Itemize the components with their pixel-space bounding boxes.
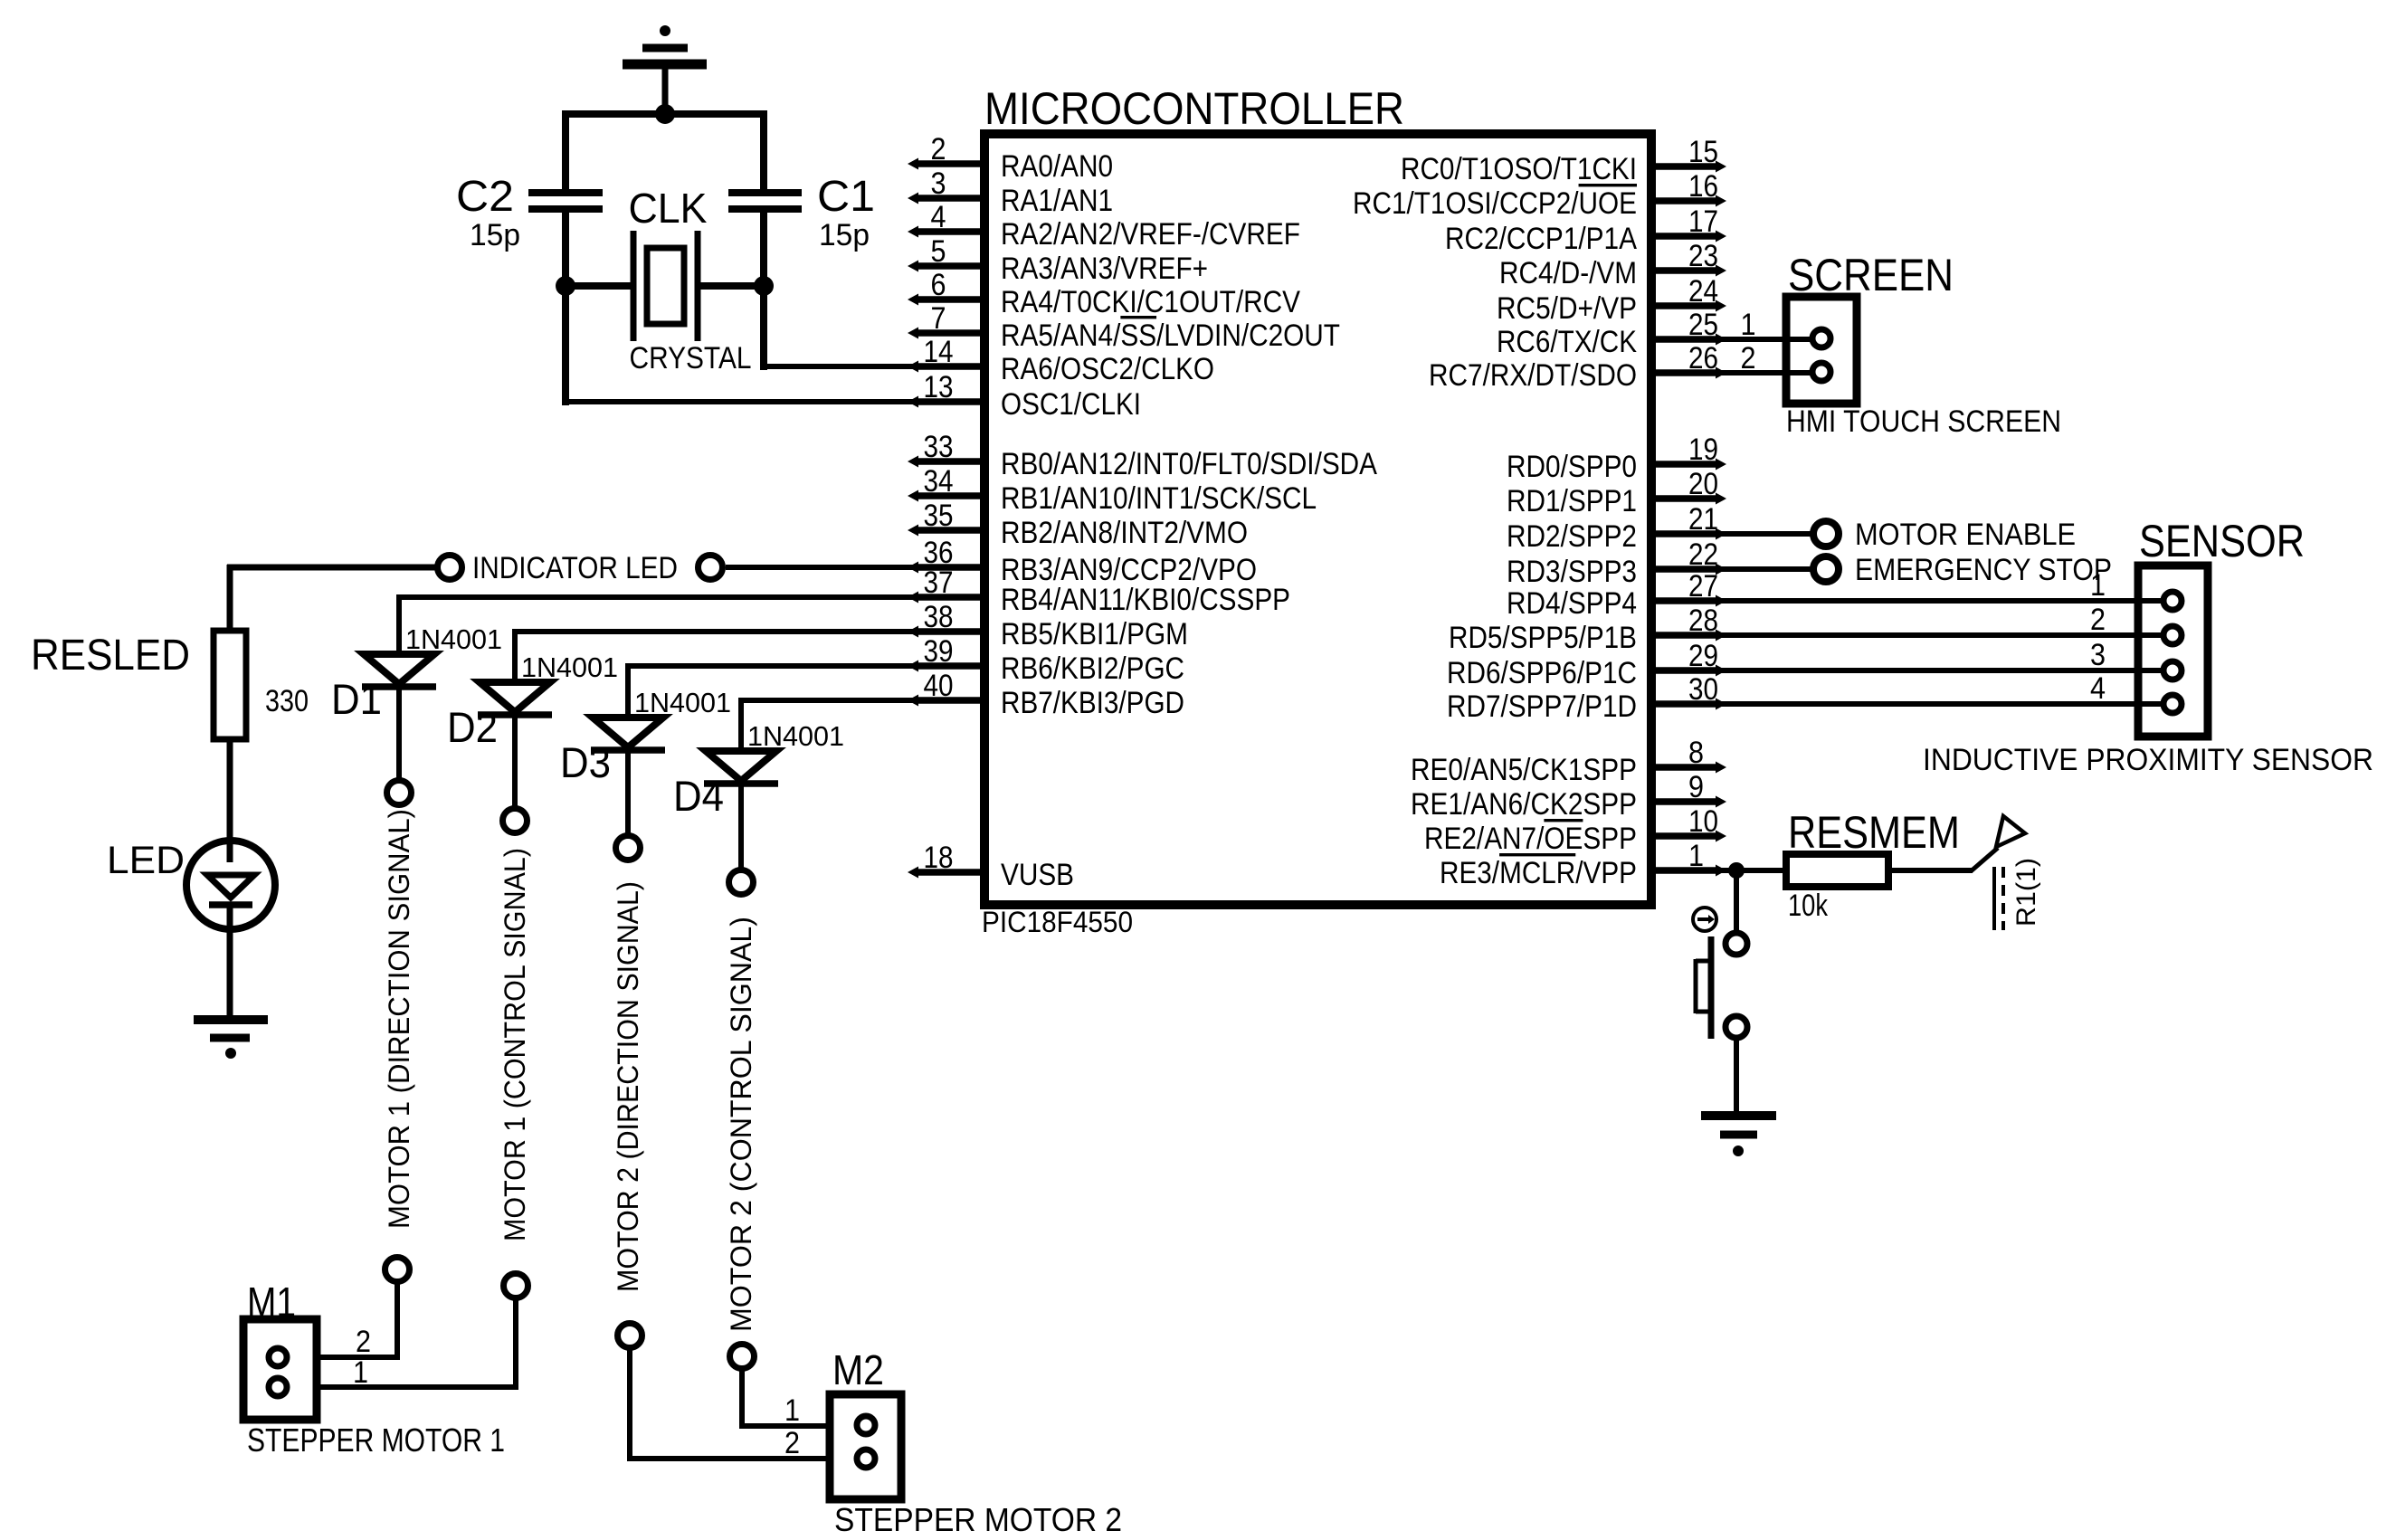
diode D4 1N4001	[738, 698, 984, 703]
capacitor C2 15p	[528, 189, 603, 196]
svg-text:PIC18F4550: PIC18F4550	[982, 906, 1133, 938]
wire left oscillator branch	[562, 110, 569, 189]
svg-text:LED: LED	[107, 839, 185, 882]
svg-text:RB6/KBI2/PGC: RB6/KBI2/PGC	[1001, 651, 1184, 686]
svg-text:2: 2	[784, 1426, 800, 1460]
wire OSC2 to pin14	[764, 364, 984, 369]
svg-text:4: 4	[931, 200, 946, 234]
pad SENSOR-3	[2163, 661, 2182, 680]
pin 35 RB2	[918, 527, 984, 534]
svg-text:13: 13	[924, 370, 954, 404]
svg-text:19: 19	[1688, 433, 1718, 467]
pad SENSOR-1	[2163, 592, 2182, 610]
svg-text:34: 34	[924, 464, 954, 499]
pin 28 RD5	[1651, 632, 1716, 639]
pin 7 RA5	[918, 329, 984, 337]
pin 22 RD3	[1651, 566, 1716, 573]
svg-text:RB7/KBI3/PGD: RB7/KBI3/PGD	[1001, 686, 1184, 720]
svg-text:1: 1	[2090, 568, 2106, 603]
svg-text:1: 1	[353, 1355, 368, 1390]
svg-text:MOTOR 1 (DIRECTION SIGNAL): MOTOR 1 (DIRECTION SIGNAL)	[383, 809, 415, 1229]
svg-text:EMERGENCY STOP: EMERGENCY STOP	[1855, 553, 2112, 587]
pin 37 RB4	[918, 594, 984, 601]
svg-text:24: 24	[1688, 274, 1718, 309]
svg-text:18: 18	[924, 841, 954, 875]
pin 3 RA1/AN1	[918, 195, 984, 202]
pin 17 RC2	[1651, 233, 1716, 240]
svg-text:R1(1): R1(1)	[2011, 858, 2041, 927]
pin 34 RB1	[918, 492, 984, 499]
pin 23 RC4	[1651, 267, 1716, 274]
svg-text:RE3/MCLR/VPP: RE3/MCLR/VPP	[1440, 856, 1637, 890]
svg-text:VUSB: VUSB	[1001, 858, 1074, 892]
pin 36 RB3	[918, 564, 984, 571]
pin 29 RD6	[1651, 667, 1716, 674]
svg-text:5: 5	[931, 234, 946, 269]
svg-text:1: 1	[1688, 839, 1704, 873]
wire pin21 motor enable	[1714, 531, 1813, 537]
pad SENSOR-4	[2163, 695, 2182, 713]
wire pin25 to screen pad1	[1714, 337, 1821, 342]
svg-text:1: 1	[784, 1393, 800, 1428]
connector M1 STEPPER MOTOR 1	[243, 1319, 317, 1420]
net flag R1(1)	[1971, 848, 1998, 871]
svg-text:INDICATOR LED: INDICATOR LED	[472, 551, 678, 585]
svg-text:RA0/AN0: RA0/AN0	[1001, 149, 1113, 184]
pin 14 RA6	[918, 363, 984, 370]
pin 27 RD4	[1651, 597, 1716, 604]
wire M1 pin2 net	[395, 1281, 400, 1360]
wire indicator net right	[726, 565, 984, 570]
svg-text:MOTOR 1 (CONTROL SIGNAL): MOTOR 1 (CONTROL SIGNAL)	[499, 848, 531, 1241]
svg-text:RC4/D-/VM: RC4/D-/VM	[1499, 256, 1637, 290]
svg-text:RD1/SPP1: RD1/SPP1	[1507, 484, 1637, 518]
svg-text:M1: M1	[247, 1279, 296, 1326]
terminal D1 upper	[387, 781, 412, 805]
pin 26 RC7	[1651, 369, 1716, 376]
pin 25 RC6	[1651, 336, 1716, 343]
svg-text:C1: C1	[817, 173, 875, 221]
node reset junction	[1728, 862, 1745, 879]
terminal MOTOR ENABLE	[1813, 521, 1839, 547]
svg-text:CRYSTAL: CRYSTAL	[630, 341, 752, 375]
svg-text:RD7/SPP7/P1D: RD7/SPP7/P1D	[1447, 689, 1637, 724]
svg-text:4: 4	[2090, 671, 2106, 706]
svg-text:RD0/SPP0: RD0/SPP0	[1507, 450, 1637, 484]
wire pin30 sensor4	[1714, 701, 2173, 707]
pin 21 RD2	[1651, 530, 1716, 537]
svg-text:HMI TOUCH SCREEN: HMI TOUCH SCREEN	[1786, 404, 2061, 439]
svg-text:20: 20	[1688, 467, 1718, 501]
pad SCREEN-2	[1812, 363, 1830, 381]
svg-text:D1: D1	[331, 675, 382, 723]
svg-text:16: 16	[1688, 169, 1718, 204]
wire top oscillator rail	[563, 110, 766, 118]
node junction top	[655, 104, 675, 124]
svg-text:14: 14	[924, 335, 954, 369]
svg-text:RD4/SPP4: RD4/SPP4	[1507, 586, 1637, 621]
svg-text:RD2/SPP2: RD2/SPP2	[1507, 519, 1637, 554]
pin 38 RB5	[918, 628, 984, 635]
svg-text:C2: C2	[456, 173, 514, 221]
svg-text:35: 35	[924, 499, 954, 533]
wire pin29 sensor3	[1714, 668, 2173, 673]
svg-text:RD5/SPP5/P1B: RD5/SPP5/P1B	[1449, 621, 1637, 655]
svg-text:RE0/AN5/CK1SPP: RE0/AN5/CK1SPP	[1411, 753, 1637, 787]
pin 5 RA3	[918, 262, 984, 270]
ground (reset button)	[1701, 1111, 1776, 1120]
svg-text:RC7/RX/DT/SDO: RC7/RX/DT/SDO	[1429, 358, 1637, 393]
svg-text:2: 2	[356, 1325, 371, 1359]
svg-text:M2: M2	[832, 1346, 884, 1393]
svg-text:8: 8	[1688, 736, 1704, 770]
svg-text:RESMEM: RESMEM	[1788, 807, 1960, 858]
wire resmem to flag	[1888, 868, 1973, 873]
terminal indicator-led right	[699, 556, 723, 580]
ground (top, crystal)	[660, 25, 670, 36]
wire junction to button	[1734, 870, 1739, 934]
svg-text:RC2/CCP1/P1A: RC2/CCP1/P1A	[1445, 222, 1637, 256]
svg-text:MOTOR 2 (CONTROL SIGNAL): MOTOR 2 (CONTROL SIGNAL)	[725, 917, 757, 1332]
pad M2-1	[857, 1416, 875, 1434]
svg-text:7: 7	[931, 301, 946, 336]
wire indicator net left	[227, 565, 233, 633]
svg-text:10k: 10k	[1788, 889, 1829, 923]
pin 6 RA4	[918, 296, 984, 303]
pin 40 RB7	[918, 697, 984, 704]
terminal indicator-led left	[438, 556, 462, 580]
svg-text:RC6/TX/CK: RC6/TX/CK	[1497, 325, 1637, 359]
svg-text:D4: D4	[673, 772, 724, 820]
wire pin22 emergency stop	[1714, 566, 1813, 572]
pad SCREEN-1	[1812, 329, 1830, 347]
pin 4 RA2	[918, 228, 984, 235]
svg-text:17: 17	[1688, 204, 1718, 239]
wire M1 pin1 net	[513, 1298, 518, 1390]
svg-text:MOTOR ENABLE: MOTOR ENABLE	[1855, 518, 2076, 552]
svg-text:39: 39	[924, 634, 954, 669]
pin 1 RE3	[1651, 867, 1716, 874]
svg-text:SENSOR: SENSOR	[2139, 516, 2305, 566]
wire M2 pin1 net	[739, 1368, 745, 1429]
diode D3 1N4001	[625, 663, 984, 669]
svg-text:40: 40	[924, 669, 954, 703]
terminal D4 lower	[730, 1345, 755, 1369]
pin 13 OSC1	[918, 398, 984, 405]
svg-text:1N4001: 1N4001	[747, 720, 844, 752]
svg-text:1N4001: 1N4001	[521, 651, 618, 683]
svg-text:RB2/AN8/INT2/VMO: RB2/AN8/INT2/VMO	[1001, 516, 1248, 550]
svg-text:MICROCONTROLLER: MICROCONTROLLER	[984, 83, 1404, 134]
svg-text:RE2/AN7/OESPP: RE2/AN7/OESPP	[1424, 822, 1637, 856]
terminal D2 upper	[503, 809, 528, 833]
svg-text:INDUCTIVE PROXIMITY SENSOR: INDUCTIVE PROXIMITY SENSOR	[1923, 743, 2373, 777]
wire pin28 sensor2	[1714, 632, 2173, 638]
svg-text:3: 3	[2090, 638, 2106, 672]
svg-text:MOTOR 2 (DIRECTION SIGNAL): MOTOR 2 (DIRECTION SIGNAL)	[612, 881, 644, 1292]
wire right oscillator branch	[760, 110, 767, 189]
svg-text:RESLED: RESLED	[31, 632, 190, 680]
svg-text:RB1/AN10/INT1/SCK/SCL: RB1/AN10/INT1/SCK/SCL	[1001, 481, 1317, 516]
wire resistor to LED	[227, 739, 233, 862]
svg-text:RA4/T0CKI/C1OUT/RCV: RA4/T0CKI/C1OUT/RCV	[1001, 285, 1300, 319]
terminal D1 lower	[385, 1258, 410, 1282]
connector M2 STEPPER MOTOR 2	[830, 1394, 901, 1499]
svg-text:RA2/AN2/VREF-/CVREF: RA2/AN2/VREF-/CVREF	[1001, 217, 1300, 252]
pin 39 RB6	[918, 662, 984, 670]
wire pin26 to screen pad2	[1714, 370, 1821, 375]
svg-text:RB4/AN11/KBI0/CSSPP: RB4/AN11/KBI0/CSSPP	[1001, 583, 1290, 617]
svg-text:RC5/D+/VP: RC5/D+/VP	[1497, 291, 1637, 326]
svg-text:RA3/AN3/VREF+: RA3/AN3/VREF+	[1001, 252, 1208, 286]
svg-text:RC1/T1OSI/CCP2/UOE: RC1/T1OSI/CCP2/UOE	[1353, 186, 1637, 221]
node crystal left	[556, 276, 575, 296]
svg-text:1N4001: 1N4001	[634, 687, 731, 718]
pad SENSOR-2	[2163, 626, 2182, 644]
svg-text:15p: 15p	[819, 218, 870, 252]
terminal D3 lower	[618, 1324, 642, 1348]
wire button to ground	[1734, 1038, 1739, 1112]
pin 8 RE0	[1651, 764, 1716, 771]
svg-text:RD6/SPP6/P1C: RD6/SPP6/P1C	[1447, 656, 1637, 690]
svg-text:RB5/KBI1/PGM: RB5/KBI1/PGM	[1001, 617, 1188, 651]
node crystal right	[754, 276, 774, 296]
pin 30 RD7	[1651, 700, 1716, 708]
terminal D2 lower	[504, 1274, 528, 1298]
svg-text:33: 33	[924, 430, 954, 464]
pushbutton actuator symbol	[1693, 908, 1716, 931]
svg-text:D2: D2	[447, 703, 498, 751]
wire M2 pin2 net	[627, 1347, 632, 1461]
terminal D4 upper	[729, 870, 754, 895]
pushbutton contacts	[1726, 933, 1747, 955]
pin 2 RA0/AN0	[918, 160, 984, 167]
pin 9 RE1	[1651, 798, 1716, 805]
svg-text:37: 37	[924, 566, 954, 600]
pin 18 VUSB	[918, 869, 984, 876]
svg-text:RA1/AN1: RA1/AN1	[1001, 184, 1113, 218]
svg-text:RB0/AN12/INT0/FLT0/SDI/SDA: RB0/AN12/INT0/FLT0/SDI/SDA	[1001, 447, 1377, 481]
svg-text:RC0/T1OSO/T1CKI: RC0/T1OSO/T1CKI	[1401, 152, 1637, 186]
svg-text:RD3/SPP3: RD3/SPP3	[1507, 555, 1637, 589]
svg-text:RE1/AN6/CK2SPP: RE1/AN6/CK2SPP	[1411, 787, 1637, 822]
svg-text:10: 10	[1688, 804, 1718, 839]
svg-text:3: 3	[931, 166, 946, 201]
svg-text:RA6/OSC2/CLKO: RA6/OSC2/CLKO	[1001, 352, 1214, 386]
svg-text:2: 2	[2090, 603, 2106, 637]
svg-text:STEPPER MOTOR 1: STEPPER MOTOR 1	[247, 1421, 505, 1459]
ground (LED)	[194, 1015, 268, 1024]
resistor RESLED 330	[214, 631, 246, 739]
diode D2 1N4001	[512, 629, 984, 634]
svg-text:9: 9	[1688, 770, 1704, 804]
pin 33 RB0	[918, 458, 984, 465]
svg-text:D3: D3	[560, 738, 611, 786]
terminal D3 upper	[616, 836, 641, 860]
svg-text:2: 2	[931, 132, 946, 166]
diode D1 1N4001	[396, 594, 984, 600]
svg-text:CLK: CLK	[629, 185, 708, 232]
pad M2-2	[857, 1450, 875, 1468]
svg-text:6: 6	[931, 268, 946, 302]
wire pin1 to resmem	[1714, 868, 1786, 873]
svg-text:15p: 15p	[470, 218, 520, 252]
pin 19 RD0	[1651, 461, 1716, 468]
pin 24 RC5	[1651, 302, 1716, 309]
svg-text:15: 15	[1688, 135, 1718, 169]
wire pin27 sensor1	[1714, 598, 2173, 604]
wire OSC1 to pin13	[566, 399, 984, 404]
pin 10 RE2	[1651, 832, 1716, 840]
svg-text:23: 23	[1688, 239, 1718, 273]
microcontroller U1 PIC18F4550	[984, 134, 1651, 905]
pin 16 RC1	[1651, 197, 1716, 204]
pad M1-2	[269, 1378, 287, 1396]
pin 15 RC0	[1651, 163, 1716, 170]
svg-text:STEPPER MOTOR 2: STEPPER MOTOR 2	[834, 1501, 1122, 1538]
svg-text:OSC1/CLKI: OSC1/CLKI	[1001, 387, 1141, 422]
capacitor C1 15p	[728, 189, 802, 196]
pin 20 RD1	[1651, 495, 1716, 502]
svg-text:330: 330	[265, 684, 309, 718]
terminal EMERGENCY STOP	[1813, 556, 1839, 582]
svg-text:38: 38	[924, 600, 954, 634]
svg-text:RA5/AN4/SS/LVDIN/C2OUT: RA5/AN4/SS/LVDIN/C2OUT	[1001, 318, 1340, 353]
pad M1-1	[269, 1348, 287, 1366]
svg-text:1N4001: 1N4001	[405, 623, 502, 655]
